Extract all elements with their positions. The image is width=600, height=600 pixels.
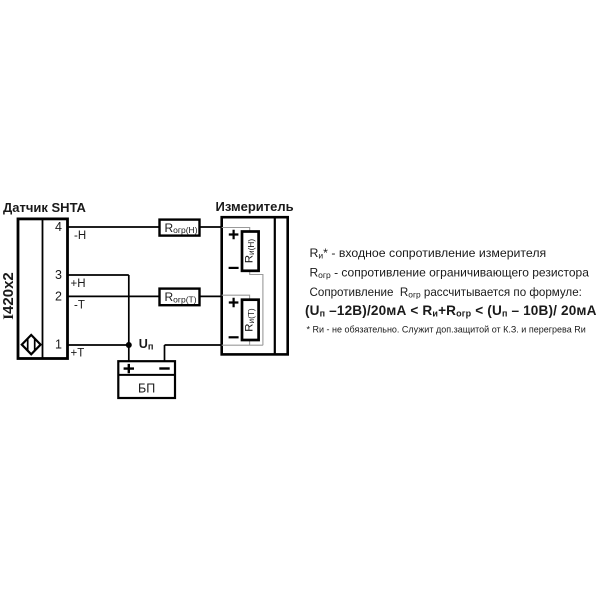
polarity - of BP bbox=[159, 367, 169, 369]
resistor Rogr(H) bbox=[160, 220, 200, 236]
svg-text:Сопротивление Rогр рассчитыва: Сопротивление Rогр рассчитывается по фор… bbox=[310, 286, 582, 300]
polarity - of Ri(H) bbox=[229, 267, 239, 269]
wire: pin2 to Rogr(T) bbox=[68, 295, 160, 297]
svg-text:* Rи - не обязательно. Служит: * Rи - не обязательно. Служит доп.защито… bbox=[307, 325, 586, 335]
svg-text:+Т: +Т bbox=[71, 347, 85, 359]
wire: thin T input to Ri(T) top bbox=[222, 295, 250, 300]
svg-text:Датчик SHTA: Датчик SHTA bbox=[3, 200, 87, 215]
wire: thin Ri(H) bottom to return rail bbox=[250, 271, 263, 345]
svg-text:Rи(Н): Rи(Н) bbox=[244, 239, 256, 264]
polarity - of Ri(T) bbox=[229, 336, 239, 338]
wire: thin common return rail bbox=[222, 344, 263, 346]
polarity + of Ri(H) bbox=[229, 230, 239, 240]
resistor Rogr(T) bbox=[160, 289, 200, 306]
wire: thin Ri(T) bottom stub bbox=[249, 340, 251, 345]
junction: Up node dot bbox=[126, 342, 132, 348]
wire: pin3 right bbox=[68, 274, 129, 276]
svg-text:3: 3 bbox=[55, 268, 62, 282]
svg-text:4: 4 bbox=[55, 220, 62, 234]
wire: thin H input to Ri(H) top bbox=[222, 228, 250, 232]
power supply BP divider bbox=[118, 374, 175, 376]
wire: pin4 to Rogr(H) bbox=[68, 226, 160, 228]
wire: PSU minus to meter bbox=[165, 344, 222, 346]
wire: pin3 down to PSU plus bbox=[128, 275, 130, 361]
svg-text:Rогр - сопротивление ограничив: Rогр - сопротивление ограничивающего рез… bbox=[310, 266, 590, 281]
wire: Rogr(H) to meter bbox=[200, 226, 222, 228]
resistor Ri(T) bbox=[242, 300, 259, 340]
svg-text:Измеритель: Измеритель bbox=[216, 199, 294, 214]
svg-text:1: 1 bbox=[55, 338, 62, 352]
polarity + of Ri(T) bbox=[229, 298, 239, 308]
power supply BP body bbox=[118, 361, 175, 398]
meter internal divider bbox=[274, 217, 276, 354]
resistor Ri(H) bbox=[242, 232, 259, 271]
wire: PSU minus up bbox=[164, 345, 166, 361]
sensor U1 internal divider bbox=[42, 219, 44, 359]
sensor U1 body bbox=[18, 219, 68, 359]
meter body bbox=[222, 217, 288, 354]
svg-text:+Н: +Н bbox=[71, 278, 86, 290]
wire: Rogr(T) to meter bbox=[200, 295, 222, 297]
svg-text:2: 2 bbox=[55, 290, 62, 304]
svg-text:БП: БП bbox=[138, 382, 155, 396]
polarity + of BP bbox=[124, 364, 134, 373]
svg-text:-Т: -Т bbox=[74, 299, 85, 311]
wire: pin1 to Up junction bbox=[68, 344, 129, 346]
svg-text:I420x2: I420x2 bbox=[0, 272, 17, 320]
svg-text:(Uп –12В)/20мА < Rи+Rогр < (Uп: (Uп –12В)/20мА < Rи+Rогр < (Uп – 10В)/ 2… bbox=[305, 303, 597, 319]
svg-text:Rи(Т): Rи(Т) bbox=[244, 308, 256, 332]
sensor symbol (current-output transducer diamond) bbox=[22, 335, 41, 354]
svg-text:Rи* - входное сопротивление из: Rи* - входное сопротивление измерителя bbox=[310, 246, 547, 261]
svg-text:-Н: -Н bbox=[74, 230, 86, 242]
